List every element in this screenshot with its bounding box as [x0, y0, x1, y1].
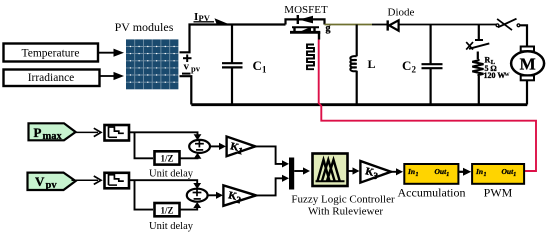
resistor RL [472, 59, 483, 105]
wire mux to fuzzy [294, 167, 310, 174]
label plus [183, 55, 192, 63]
svg-text:Irradiance: Irradiance [28, 72, 75, 84]
wire Pmax to hold [74, 128, 101, 136]
svg-text:1: 1 [484, 172, 487, 178]
switch motor branch [496, 19, 527, 47]
arrow Ipv on rail [215, 18, 232, 25]
svg-text:In: In [407, 167, 415, 176]
fuzzy logic controller block [313, 154, 348, 187]
svg-text:v: v [184, 61, 190, 73]
wire PV minus terminal [180, 76, 192, 104]
wire delay2 to sum2 [180, 202, 202, 210]
wire Irradiance to PV arrow [100, 72, 124, 80]
capacitor C2 [422, 25, 443, 105]
svg-text:1/Z: 1/Z [160, 205, 173, 215]
svg-text:With Ruleviewer: With Ruleviewer [308, 206, 383, 218]
MOSFET U1 [286, 15, 325, 40]
inductor L [350, 25, 356, 105]
wire Accumulation to PWM [458, 168, 471, 176]
svg-text:In: In [475, 167, 483, 176]
wire K1 to mux [255, 146, 289, 167]
wire sum1 to K1 [210, 143, 226, 150]
svg-text:C: C [253, 58, 262, 73]
svg-text:max: max [43, 131, 63, 142]
svg-text:L: L [368, 57, 376, 71]
label RL 5ohm 120W [484, 56, 506, 81]
svg-text:Unit delay: Unit delay [149, 221, 194, 232]
block PWM [472, 164, 524, 184]
sum block 1 [189, 140, 210, 153]
svg-text:Diode: Diode [388, 7, 415, 19]
svg-text:M: M [520, 55, 536, 74]
unit delay block 1 [155, 151, 180, 164]
wire K2 to mux [256, 175, 289, 196]
wire sum2 to K2 [208, 192, 223, 199]
gain K2 [223, 185, 256, 206]
unit delay block 2 [155, 203, 180, 216]
wire Temperature to PV arrow [99, 49, 125, 57]
svg-text:2: 2 [412, 65, 417, 75]
wire hold2 to sum2 [129, 180, 201, 189]
svg-text:pv: pv [191, 64, 201, 74]
svg-text:1: 1 [446, 172, 449, 178]
wire diode to right [399, 24, 497, 26]
svg-text:120 W: 120 W [484, 71, 506, 80]
label Ipv [194, 11, 215, 23]
svg-text:P: P [34, 125, 42, 140]
svg-text:PV modules: PV modules [115, 20, 174, 34]
svg-text:Accumulation: Accumulation [398, 186, 466, 200]
block Irradiance [4, 70, 100, 87]
diode D1 [388, 20, 399, 30]
svg-text:Out: Out [435, 167, 448, 176]
svg-text:1: 1 [513, 172, 516, 178]
sum block 2 [187, 189, 208, 202]
capacitor C1 [222, 25, 243, 105]
block Accumulation [404, 164, 458, 184]
label minus [182, 73, 191, 75]
wire branch to unit delay 2 [135, 180, 154, 209]
gain K3 [360, 161, 391, 183]
block Temperature [4, 44, 99, 62]
svg-text:1: 1 [416, 172, 419, 178]
ground bus wire [191, 103, 527, 106]
label C1 [253, 58, 268, 75]
svg-text:Out: Out [502, 167, 515, 176]
label Vpv [184, 61, 201, 74]
wire olive MOSFET to diode [325, 24, 373, 26]
wire delay1 to sum1 [180, 153, 202, 159]
wire hold1 to sum1 [129, 132, 201, 140]
svg-text:Fuzzy Logic Controller: Fuzzy Logic Controller [291, 194, 395, 206]
wire Vpv to hold [72, 176, 102, 184]
mux bar [289, 158, 294, 190]
label C2 [402, 58, 417, 75]
svg-text:C: C [402, 58, 411, 73]
zero-order hold 1 [105, 125, 130, 141]
svg-text:MOSFET: MOSFET [284, 4, 328, 16]
breaker load branch [466, 25, 489, 60]
tag Pmax [29, 123, 76, 142]
wire to diode [372, 24, 387, 26]
tag Vpv [28, 173, 76, 191]
wire branch to unit delay 1 [135, 132, 154, 158]
svg-text:pv: pv [46, 180, 58, 191]
PV panel [126, 39, 178, 89]
wire gate red [319, 40, 536, 172]
svg-text:PWM: PWM [484, 186, 513, 200]
wire fuzzy to K3 [348, 167, 360, 174]
svg-text:Temperature: Temperature [22, 48, 80, 60]
wire PV plus terminal and top rail [180, 25, 286, 53]
svg-text:1: 1 [262, 65, 267, 75]
svg-text:V: V [35, 174, 45, 189]
motor M [511, 47, 544, 105]
svg-text:Unit delay: Unit delay [149, 169, 194, 180]
wire K3 to Accumulation [391, 168, 403, 175]
gain K1 [227, 137, 256, 158]
resistor Ron meander under MOSFET [307, 45, 314, 70]
zero-order hold 2 [105, 173, 130, 189]
svg-text:1/Z: 1/Z [160, 154, 173, 164]
